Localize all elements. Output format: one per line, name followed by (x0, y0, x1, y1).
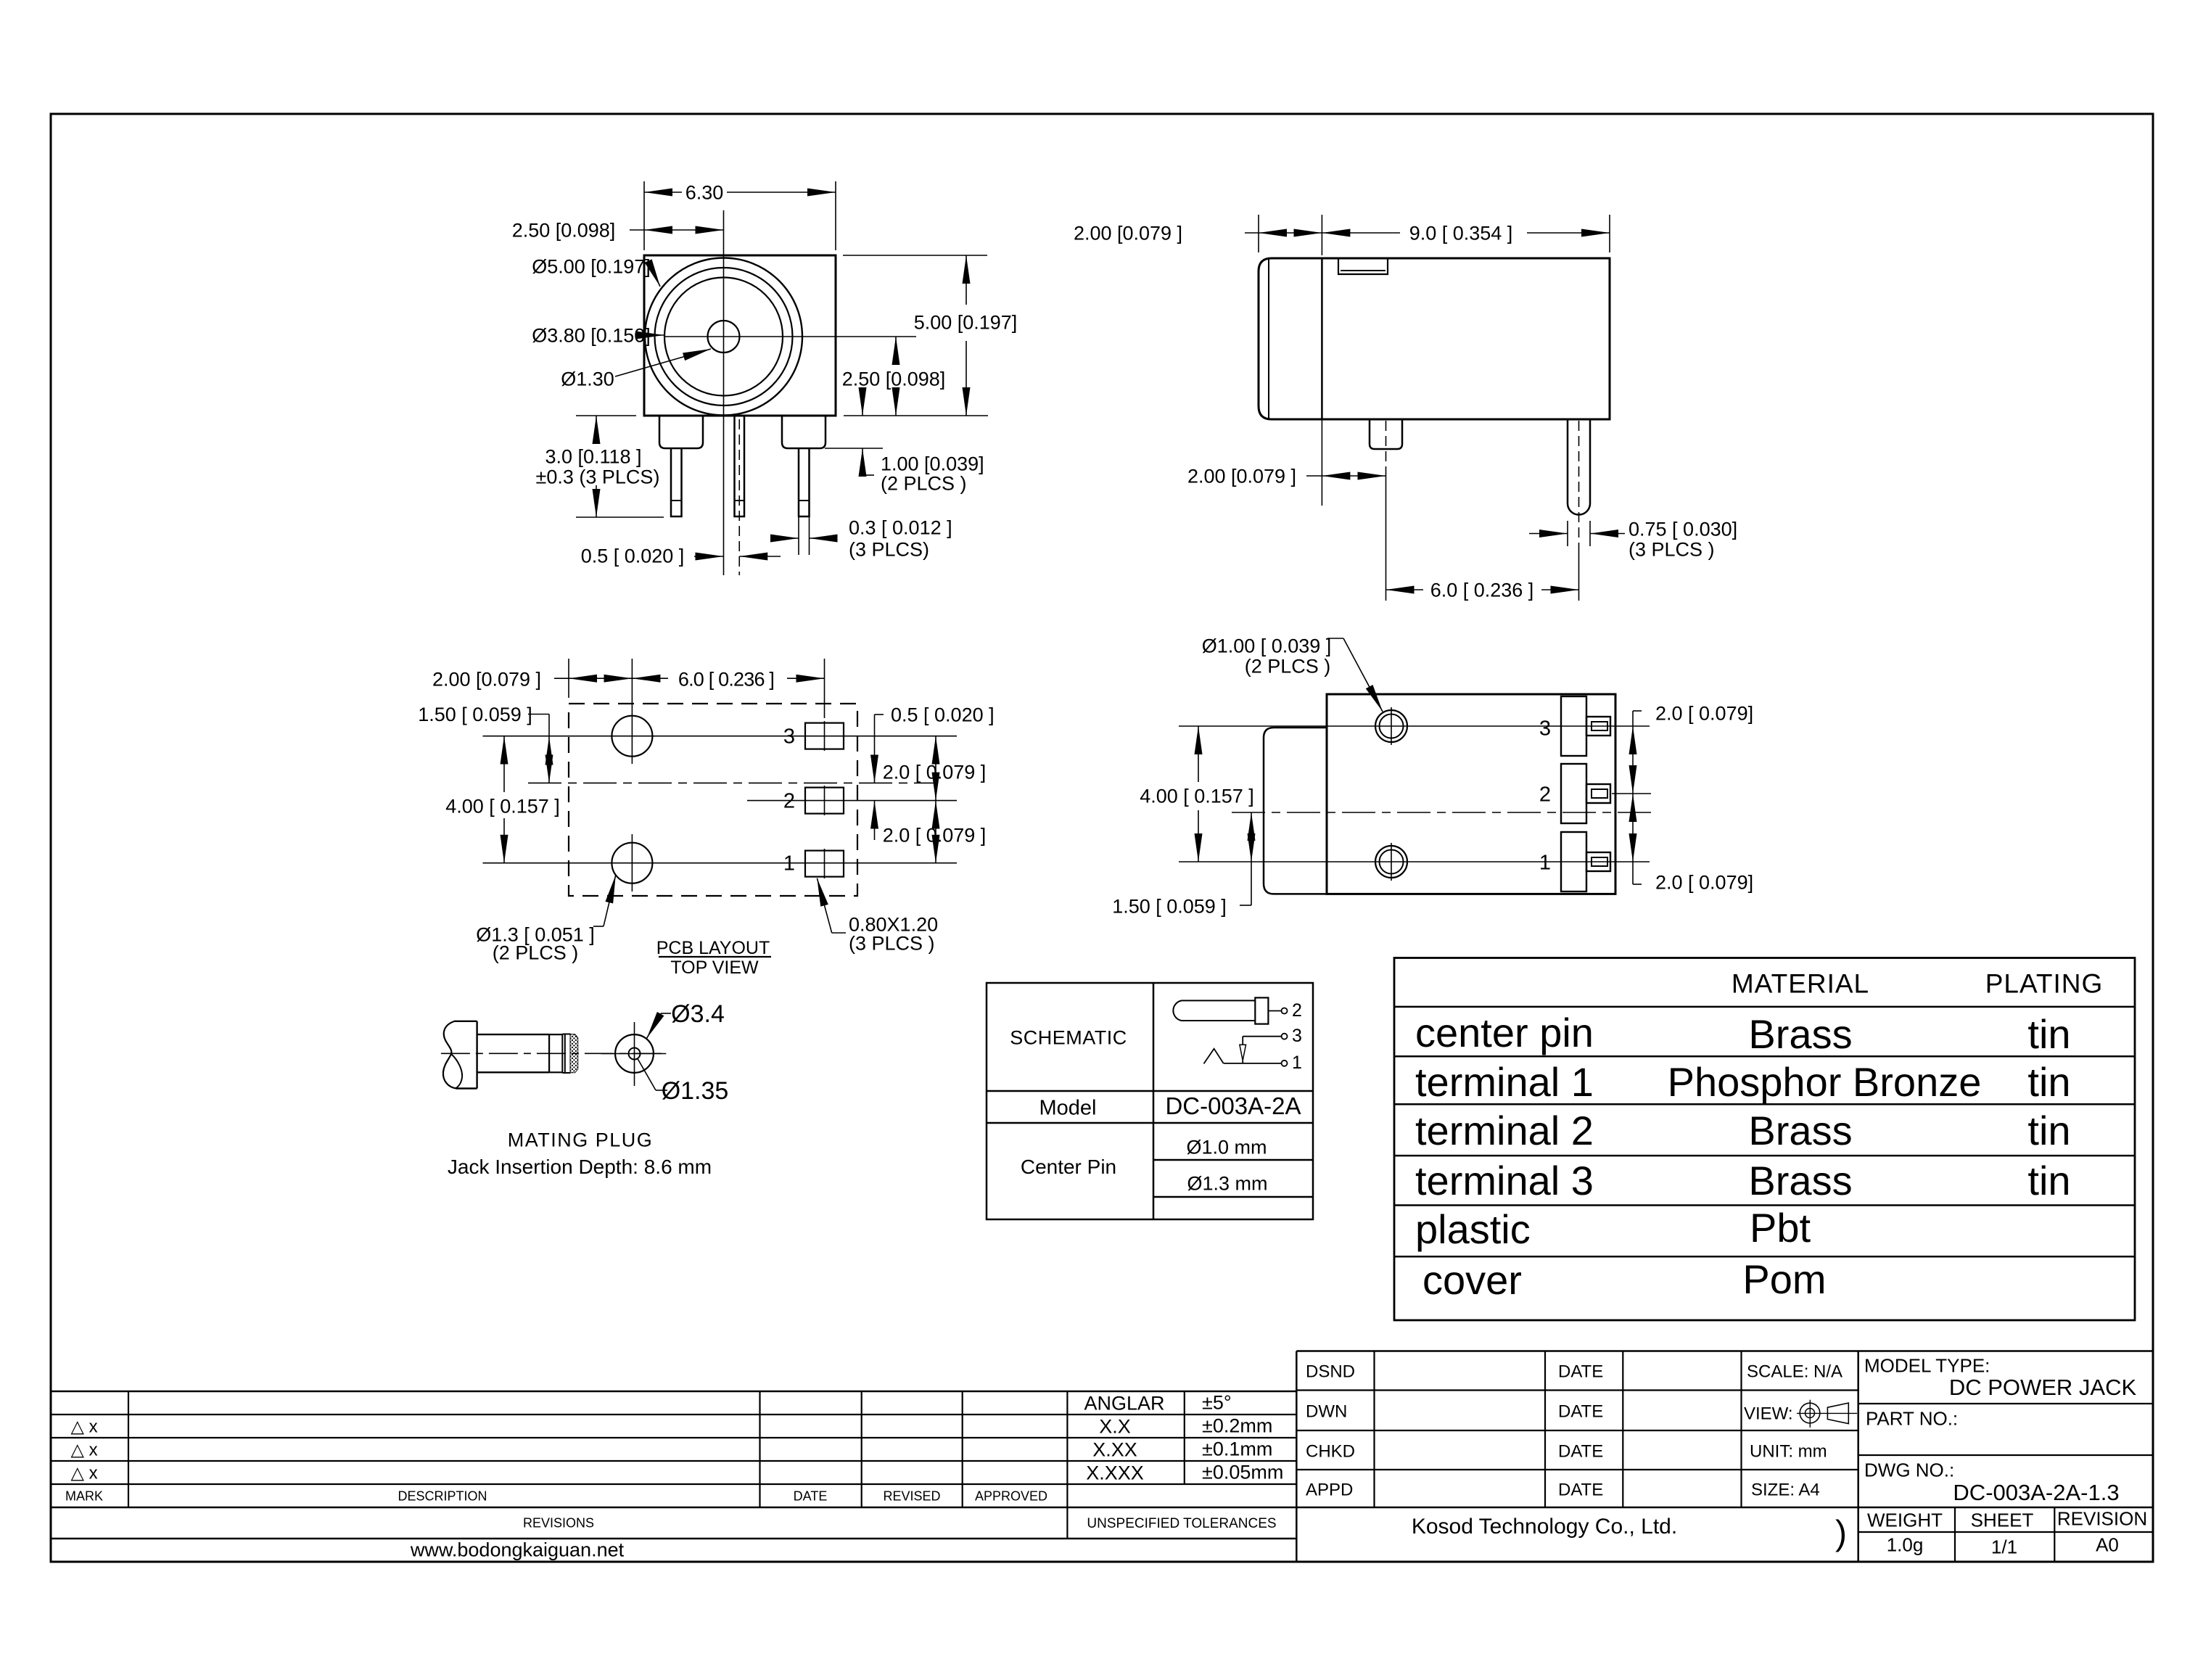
svg-text:±0.2mm: ±0.2mm (1202, 1415, 1272, 1437)
dimension 0.3 [0.012] pin thickness (798, 516, 799, 555)
svg-text:(3 PLCS ): (3 PLCS ) (1629, 539, 1715, 561)
svg-text:MARK: MARK (65, 1489, 103, 1504)
svg-text:VIEW:: VIEW: (1744, 1404, 1793, 1424)
svg-text:WEIGHT: WEIGHT (1867, 1509, 1943, 1531)
dimension 0.75 [0.030] pin diameter (1567, 521, 1568, 546)
bottom view: hole crosshairs (1391, 707, 1392, 745)
mating plug front: pin hole Ø1.35 (629, 1048, 641, 1060)
svg-text:2: 2 (1539, 783, 1551, 806)
svg-text:1.0g: 1.0g (1887, 1533, 1924, 1555)
schematic symbol: sleeve contact (1255, 997, 1268, 1024)
bottom view: cover with rounded left corners (1264, 728, 1327, 894)
svg-text:1: 1 (783, 852, 795, 875)
svg-text:Ø1.0 mm: Ø1.0 mm (1186, 1137, 1267, 1158)
schematic table: outer border (987, 983, 1313, 1219)
svg-text:): ) (1835, 1514, 1847, 1552)
title block: approval row lines (1296, 1389, 1858, 1391)
svg-text:Pom: Pom (1742, 1256, 1826, 1302)
svg-text:(3 PLCS ): (3 PLCS ) (849, 933, 935, 955)
svg-text:DC POWER JACK: DC POWER JACK (1949, 1375, 2137, 1400)
svg-text:1.50 [ 0.059 ]: 1.50 [ 0.059 ] (1112, 896, 1227, 918)
svg-text:SIZE: A4: SIZE: A4 (1751, 1481, 1820, 1500)
svg-text:SCHEMATIC: SCHEMATIC (1010, 1027, 1127, 1049)
svg-text:MATERIAL: MATERIAL (1732, 968, 1869, 998)
dimension 1.50 [0.059] (bottom view) (1251, 812, 1252, 862)
front view: right terminal shoulder (782, 416, 825, 448)
svg-text:REVISIONS: REVISIONS (523, 1516, 594, 1531)
front view: left terminal shoulder (659, 416, 703, 448)
svg-text:4.00 [ 0.157 ]: 4.00 [ 0.157 ] (1140, 786, 1254, 807)
svg-text:Phosphor Bronze: Phosphor Bronze (1668, 1059, 1982, 1105)
title block: row lines (51, 1414, 1296, 1415)
svg-text:PLATING: PLATING (1985, 968, 2104, 998)
front view: center terminal pin (735, 416, 745, 516)
svg-text:DC-003A-2A-1.3: DC-003A-2A-1.3 (1953, 1480, 2119, 1505)
svg-text:±0.1mm: ±0.1mm (1202, 1438, 1272, 1460)
svg-text:3: 3 (1292, 1026, 1302, 1046)
mating plug: cable strain relief wavy outline (443, 1021, 456, 1089)
pcb layout: pad 1 (805, 851, 844, 877)
side view: center terminal (short pin) (1370, 419, 1402, 449)
dimension 1.00 [0.039] terminal shoulder height (825, 448, 883, 449)
svg-text:ANGLAR: ANGLAR (1084, 1393, 1164, 1415)
svg-text:2.50 [0.098]: 2.50 [0.098] (512, 220, 616, 242)
svg-text:(2 PLCS ): (2 PLCS ) (881, 473, 967, 495)
pcb layout: line through pad 2 (747, 800, 957, 802)
dimension 2.00 [0.079] (flange to center pin) (1321, 419, 1322, 506)
front view: center pin circle Ø1.30 (708, 321, 740, 353)
svg-text:0.5 [ 0.020 ]: 0.5 [ 0.020 ] (581, 545, 685, 567)
svg-text:2: 2 (1292, 1000, 1302, 1021)
dimension 2.0 [0.079] (terminal 3 to 2) (1632, 711, 1634, 726)
mating plug: barrel (477, 1034, 550, 1035)
svg-text:5.00 [0.197]: 5.00 [0.197] (914, 312, 1018, 334)
dimension 2.0 [0.079] (pad 2 to pad 1) (935, 801, 936, 863)
svg-text:TOP VIEW: TOP VIEW (670, 958, 759, 978)
mating plug front: crosshair (634, 1022, 635, 1086)
dimension 2.00 [0.079] (hole to left edge) (568, 659, 569, 698)
front view: horizontal centerline (664, 336, 917, 337)
svg-text:Ø1.35: Ø1.35 (662, 1077, 729, 1105)
svg-text:Ø1.3 mm: Ø1.3 mm (1187, 1173, 1267, 1195)
dimension 2.0 [0.079] (terminal 2 to 1) (1632, 794, 1634, 862)
svg-text:PCB LAYOUT: PCB LAYOUT (656, 938, 770, 958)
svg-text:2.0 [ 0.079]: 2.0 [ 0.079] (1655, 703, 1753, 725)
svg-text:DESCRIPTION: DESCRIPTION (398, 1489, 487, 1504)
dimension 0.5 [0.020] (centerline to pad 2) (874, 715, 876, 767)
svg-text:6.30: 6.30 (685, 182, 724, 204)
svg-text:2.50 [0.098]: 2.50 [0.098] (842, 368, 946, 390)
svg-text:REVISED: REVISED (883, 1489, 940, 1504)
title block: approval column lines (1373, 1351, 1375, 1508)
svg-text:MATING PLUG: MATING PLUG (508, 1129, 654, 1151)
svg-text:CHKD: CHKD (1306, 1442, 1355, 1462)
title block: revisions table top line (51, 1391, 1296, 1393)
title block: weight sheet revision section (1858, 1531, 2153, 1533)
front view: left terminal pin (671, 448, 682, 516)
svg-text:DATE: DATE (1558, 1402, 1603, 1422)
schematic table: column divider (1153, 983, 1155, 1219)
svg-text:(2 PLCS ): (2 PLCS ) (493, 942, 579, 964)
svg-text:1/1: 1/1 (1991, 1536, 2017, 1557)
svg-text:3: 3 (783, 725, 795, 748)
svg-text:0.3 [ 0.012 ]: 0.3 [ 0.012 ] (849, 517, 952, 539)
svg-text:X.X: X.X (1099, 1416, 1131, 1438)
svg-text:terminal 3: terminal 3 (1415, 1158, 1594, 1203)
svg-text:tin: tin (2027, 1108, 2070, 1153)
svg-text:www.bodongkaiguan.net: www.bodongkaiguan.net (410, 1539, 625, 1561)
front view: jack body outline (644, 255, 836, 416)
svg-text:2.0 [ 0.079 ]: 2.0 [ 0.079 ] (883, 762, 987, 783)
svg-text:△ x: △ x (70, 1417, 97, 1437)
dimension 4.00 [0.157] (hole spacing) (503, 736, 505, 792)
front view: bushing middle circle (655, 268, 793, 405)
svg-text:DWG NO.:: DWG NO.: (1864, 1459, 1954, 1481)
front view: left terminal pin tip line (671, 500, 682, 501)
svg-text:1: 1 (1292, 1053, 1302, 1073)
svg-text:UNSPECIFIED TOLERANCES: UNSPECIFIED TOLERANCES (1087, 1516, 1276, 1531)
dimension 4.00 [0.157] (bottom view) (1198, 726, 1199, 782)
bottom view: line through terminal 1 (1179, 861, 1650, 862)
dimension 9.0 [0.354] (side top) (1321, 215, 1322, 255)
side view: rear pin dashed centerline (1578, 421, 1580, 549)
bottom view: terminal hole lower Ø1.00 (1375, 846, 1407, 878)
svg-text:0.75 [ 0.030]: 0.75 [ 0.030] (1629, 519, 1737, 540)
dimension 2.50 [0.098] (top, edge to center) (630, 229, 644, 231)
pcb layout: mounting hole lower Ø1.3 (612, 843, 652, 884)
svg-text:X.XX: X.XX (1092, 1439, 1137, 1461)
svg-text:1.00 [0.039]: 1.00 [0.039] (881, 453, 984, 475)
svg-text:A0: A0 (2096, 1533, 2119, 1555)
material table: row lines (1394, 1006, 2135, 1008)
dimension 6.30 (top width) (643, 181, 645, 250)
svg-text:3: 3 (1539, 717, 1551, 740)
svg-text:0.5 [ 0.020 ]: 0.5 [ 0.020 ] (891, 704, 995, 726)
dimension 0.5 [0.020] center pin offset (694, 556, 724, 557)
svg-text:DWN: DWN (1306, 1402, 1347, 1422)
side view: rear terminal pin (long) (1568, 419, 1590, 515)
pcb layout: component outline (dashed) (569, 704, 857, 896)
svg-text:±5°: ±5° (1202, 1392, 1232, 1414)
svg-text:Ø1.00 [ 0.039 ]: Ø1.00 [ 0.039 ] (1202, 635, 1332, 657)
dimension 5.00 [0.197] (right height) (843, 255, 987, 256)
svg-text:cover: cover (1422, 1257, 1522, 1303)
front view: bushing outer circle Ø5.00 (645, 258, 802, 416)
dimension 3.0 [0.118] ±0.3 terminal length (576, 415, 636, 416)
bottom view: line through terminal 3 (1179, 725, 1650, 727)
pcb layout: pad 2 (805, 788, 844, 814)
svg-text:2.00 [0.079 ]: 2.00 [0.079 ] (432, 669, 541, 691)
front view: center pin dashed centerline (738, 419, 740, 575)
svg-text:2.00 [0.079 ]: 2.00 [0.079 ] (1074, 223, 1182, 244)
bottom view: line through terminal 2 (1612, 793, 1651, 794)
svg-text:Pbt: Pbt (1750, 1205, 1811, 1251)
svg-text:9.0 [ 0.354 ]: 9.0 [ 0.354 ] (1409, 223, 1513, 244)
svg-text:tin: tin (2027, 1059, 2070, 1105)
mating plug: ferrule rings (549, 1034, 562, 1035)
dimension 6.0 [0.236] (pin spacing side view) (1386, 467, 1387, 601)
schematic symbol: terminal 1 spring lever (1282, 1061, 1288, 1066)
svg-text:SCALE: N/A: SCALE: N/A (1747, 1362, 1842, 1382)
svg-text:(3 PLCS): (3 PLCS) (849, 539, 929, 561)
svg-text:Ø3.4: Ø3.4 (671, 1000, 725, 1028)
svg-text:6.0 [ 0.236 ]: 6.0 [ 0.236 ] (1430, 580, 1534, 601)
svg-text:Brass: Brass (1748, 1108, 1852, 1153)
svg-text:X.XXX: X.XXX (1086, 1462, 1144, 1484)
side view: center terminal dashed centerline (1386, 421, 1387, 467)
svg-text:6.0 [ 0.236 ]: 6.0 [ 0.236 ] (678, 669, 774, 691)
svg-text:2.00 [0.079 ]: 2.00 [0.079 ] (1187, 466, 1296, 487)
svg-text:DSND: DSND (1306, 1362, 1355, 1382)
title block: revisions table column lines (128, 1391, 129, 1507)
mating plug front: outer circle Ø3.4 (615, 1034, 654, 1073)
svg-text:tin: tin (2027, 1011, 2070, 1057)
schematic symbol: terminal 3 contact with arrow (1282, 1034, 1288, 1039)
side view: front flange line (1321, 258, 1323, 419)
svg-text:tin: tin (2027, 1158, 2070, 1203)
dimension 2.00 [0.079] (side top left) (1258, 215, 1259, 252)
svg-text:1: 1 (1539, 851, 1551, 874)
front view: right terminal pin tip line (799, 500, 810, 501)
svg-text:△ x: △ x (70, 1464, 97, 1483)
svg-text:DATE: DATE (1558, 1481, 1603, 1500)
bottom view: terminal 2 (1561, 764, 1586, 823)
svg-text:Kosod Technology Co., Ltd.: Kosod Technology Co., Ltd. (1412, 1515, 1677, 1539)
svg-text:DATE: DATE (1558, 1442, 1603, 1462)
dimension 2.50 [0.098] (right, center to bottom) (895, 337, 897, 363)
svg-text:Model: Model (1039, 1096, 1097, 1119)
svg-text:1.50 [ 0.059 ]: 1.50 [ 0.059 ] (418, 704, 532, 725)
svg-text:APPROVED: APPROVED (975, 1489, 1047, 1504)
front view: center pin tip line (735, 500, 745, 501)
schematic symbol: plug barrel (1173, 1000, 1255, 1021)
pcb layout: main dash-dot centerline (528, 782, 936, 783)
side view: left cap seam line (1268, 258, 1269, 419)
front view: barrel circle Ø3.80 (664, 278, 783, 396)
svg-text:SHEET: SHEET (1971, 1509, 2034, 1531)
svg-text:4.00 [ 0.157 ]: 4.00 [ 0.157 ] (445, 796, 560, 818)
bottom view: terminal 3 (1561, 696, 1586, 756)
svg-text:3.0 [0.118 ]: 3.0 [0.118 ] (545, 446, 641, 468)
svg-text:terminal 1: terminal 1 (1415, 1059, 1594, 1105)
svg-text:MODEL TYPE:: MODEL TYPE: (1864, 1354, 1990, 1376)
svg-text:Jack Insertion Depth: 8.6 mm: Jack Insertion Depth: 8.6 mm (448, 1156, 712, 1178)
svg-text:DATE: DATE (1558, 1362, 1603, 1382)
front view: vertical centerline (723, 210, 725, 575)
svg-text:PART NO.:: PART NO.: (1866, 1407, 1958, 1429)
side view: top notch (1338, 258, 1388, 274)
mating plug: centerline (441, 1053, 666, 1054)
svg-text:plastic: plastic (1415, 1206, 1531, 1252)
pcb layout: mounting hole upper Ø1.3 (612, 716, 652, 757)
svg-text:±0.3 (3 PLCS): ±0.3 (3 PLCS) (536, 466, 660, 488)
svg-text:terminal 2: terminal 2 (1415, 1108, 1594, 1153)
svg-text:UNIT: mm: UNIT: mm (1750, 1442, 1827, 1462)
front view: right terminal pin (799, 448, 810, 516)
schematic table: row lines (987, 1090, 1313, 1092)
svg-text:±0.05mm: ±0.05mm (1202, 1462, 1283, 1483)
pcb layout: pad 3 (805, 723, 844, 749)
svg-text:2: 2 (783, 789, 795, 812)
mating plug: flange (476, 1021, 477, 1089)
svg-text:(2 PLCS ): (2 PLCS ) (1245, 656, 1331, 678)
svg-text:DATE: DATE (794, 1489, 828, 1504)
svg-text:APPD: APPD (1306, 1481, 1353, 1500)
pcb layout: hole vertical centerlines (631, 659, 633, 764)
side view: jack body outline with rounded left end (1259, 258, 1610, 419)
title block: approval section top line (1296, 1350, 2152, 1352)
bottom view: terminal 1 (1561, 832, 1586, 892)
bottom view: main dash-dot centerline (1232, 812, 1651, 813)
svg-text:2.0 [ 0.079]: 2.0 [ 0.079] (1655, 872, 1753, 894)
schematic symbol: terminal 2 line and node (1268, 1010, 1281, 1012)
svg-text:Brass: Brass (1748, 1011, 1852, 1057)
bottom view: jack body outline (1327, 694, 1615, 894)
svg-text:△ x: △ x (70, 1441, 97, 1460)
svg-text:2.0 [ 0.079 ]: 2.0 [ 0.079 ] (883, 825, 987, 847)
title block: model type section (1858, 1403, 2153, 1404)
svg-text:center pin: center pin (1415, 1010, 1594, 1055)
svg-text:Center Pin: Center Pin (1021, 1156, 1116, 1178)
svg-text:Ø5.00 [0.197]: Ø5.00 [0.197] (532, 256, 651, 278)
bottom view: terminal hole upper Ø1.00 (1375, 710, 1407, 742)
pcb layout: line through hole and pad 3 (483, 736, 958, 737)
dimension 6.0 [0.236] (hole to pads) (824, 659, 825, 718)
svg-text:Ø1.30: Ø1.30 (561, 368, 614, 390)
svg-text:DC-003A-2A: DC-003A-2A (1165, 1092, 1301, 1119)
svg-text:Brass: Brass (1748, 1158, 1852, 1203)
mating plug: knurled tip band (571, 1034, 578, 1072)
material table: outer border (1394, 958, 2135, 1321)
svg-text:REVISION: REVISION (2057, 1507, 2147, 1529)
pcb layout: line through hole and pad 1 (483, 862, 958, 864)
svg-text:Ø3.80 [0.150]: Ø3.80 [0.150] (532, 325, 651, 347)
dimension 2.0 [0.079] (pad 3 to pad 2) (935, 736, 936, 801)
